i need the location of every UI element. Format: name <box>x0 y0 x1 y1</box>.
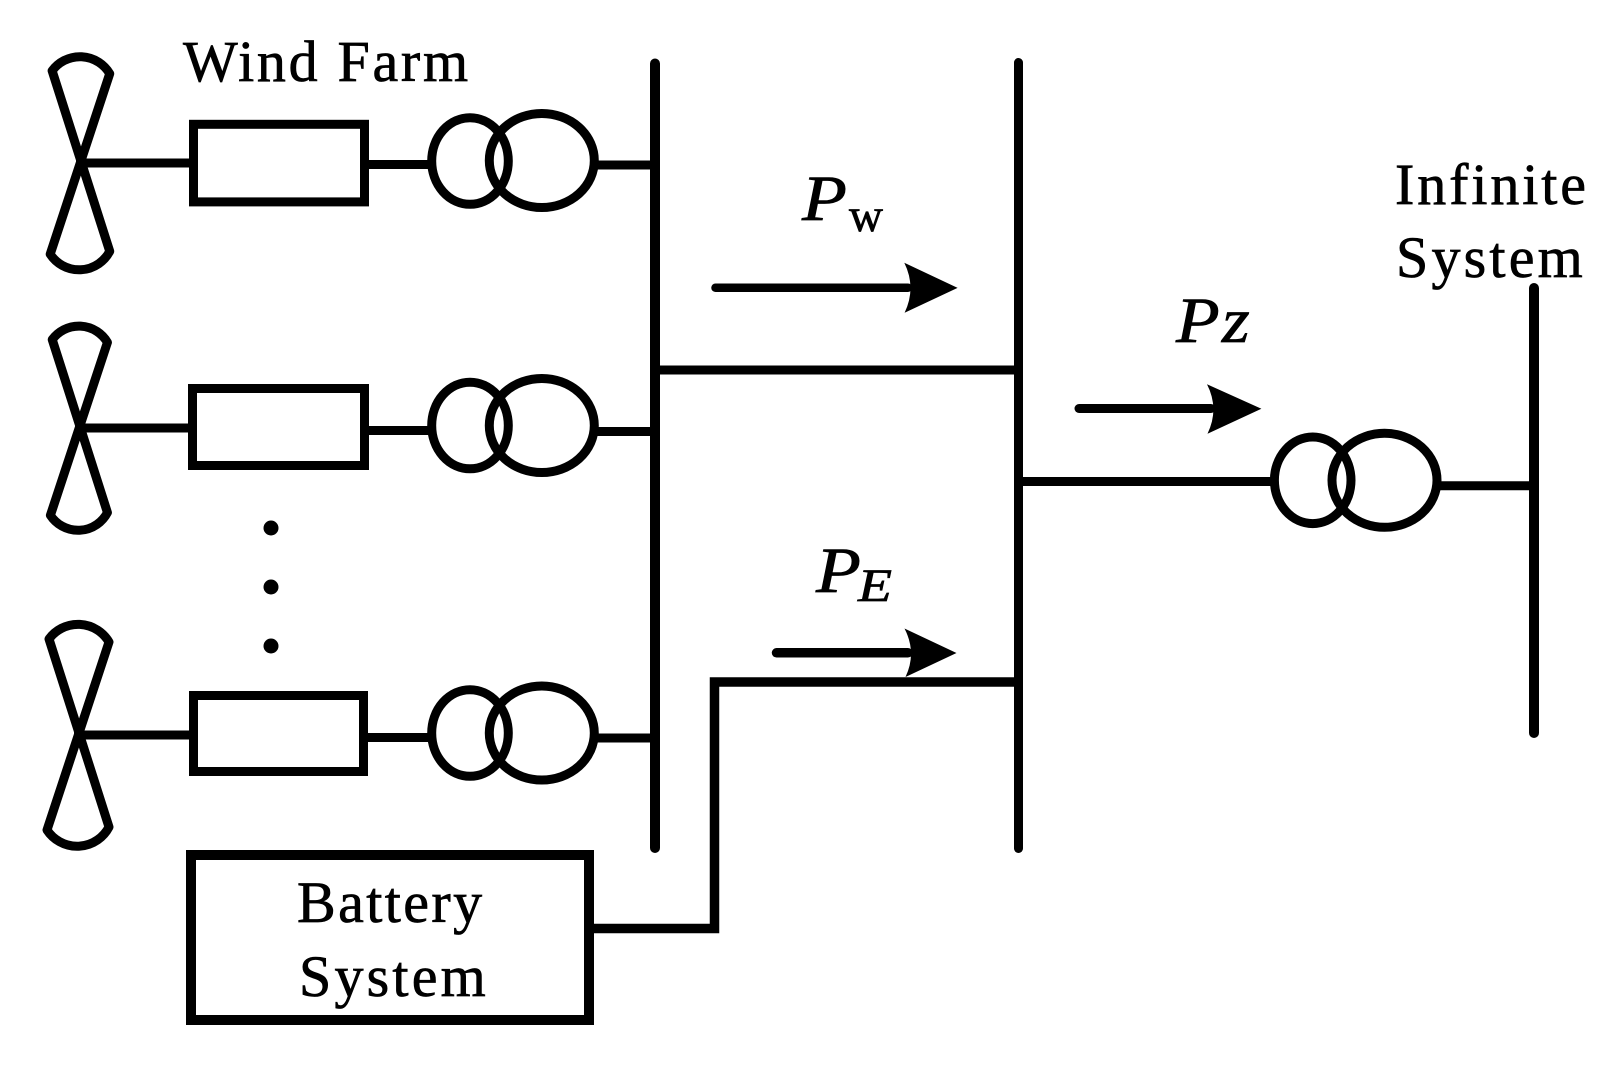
transformer T2 <box>432 379 595 473</box>
wind turbine WT2 <box>50 326 107 530</box>
wire T1 to bus 1 <box>597 161 655 170</box>
arrow Pw <box>716 263 958 313</box>
wire bus 2 to grid transformer <box>1023 477 1272 486</box>
grid transformer T4 <box>1274 433 1437 527</box>
wind turbine WT1 <box>50 57 110 270</box>
wire G2 to T2 <box>365 426 432 435</box>
svg-text:P: P <box>815 535 861 607</box>
wire T3 to bus 1 <box>597 734 655 743</box>
wire WT1 shaft <box>76 159 194 168</box>
bus bar 1 (wind farm bus) <box>650 64 660 849</box>
generator box G3 <box>194 696 364 772</box>
wind turbine WT3 <box>47 624 109 846</box>
svg-text:Pz: Pz <box>1175 285 1252 357</box>
svg-text:Wind Farm: Wind Farm <box>183 29 471 94</box>
label Infinite System <box>1395 152 1589 290</box>
svg-text:E: E <box>857 560 892 612</box>
svg-text:System: System <box>299 944 489 1009</box>
svg-text:System: System <box>1396 225 1586 290</box>
wire WT2 shaft <box>75 424 193 433</box>
arrow Pz <box>1079 384 1261 433</box>
generator box G1 <box>194 124 365 202</box>
label Pz <box>1175 285 1252 357</box>
label PE <box>815 535 892 612</box>
label Battery System <box>297 870 489 1009</box>
svg-text:Infinite: Infinite <box>1395 152 1589 217</box>
transformer T3 <box>432 686 595 780</box>
transformer T1 <box>432 114 595 208</box>
wire bus 1 to bus 2 <box>655 366 1019 375</box>
battery system box <box>191 855 589 1020</box>
ellipsis dots (more wind units) <box>264 521 279 654</box>
wire G3 to T3 <box>364 733 432 742</box>
wire grid transformer to infinite bus <box>1438 481 1534 490</box>
wire WT3 shaft <box>74 731 194 740</box>
generator box G2 <box>193 389 365 466</box>
infinite system bus <box>1529 288 1539 733</box>
arrow PE <box>777 629 957 678</box>
label Pw <box>801 163 883 242</box>
svg-text:Battery: Battery <box>297 870 485 935</box>
bus bar 2 (PCC bus) <box>1014 63 1023 849</box>
wire battery to bus 2 <box>594 682 1018 929</box>
svg-text:P: P <box>801 163 847 235</box>
label Wind Farm <box>183 29 471 94</box>
wire G1 to T1 <box>365 160 432 169</box>
svg-text:w: w <box>849 190 883 242</box>
wire T2 to bus 1 <box>597 427 655 436</box>
